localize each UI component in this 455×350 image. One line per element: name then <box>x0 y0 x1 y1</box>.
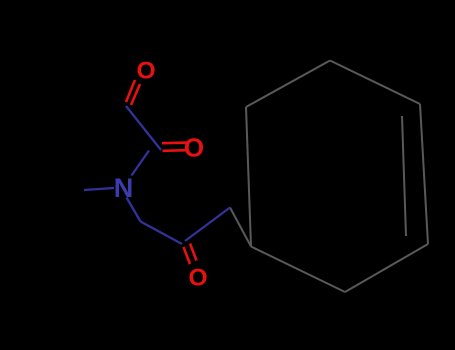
svg-text:O: O <box>184 133 204 163</box>
wire ring inner double-bond line (inside right edge) <box>402 116 406 236</box>
wire ring edge B-C (top-right edge) <box>330 61 420 105</box>
double bond C2=O2 (amide carbonyl, horizontal) <box>162 141 188 144</box>
wire bond C4-C5 <box>185 208 230 242</box>
wire bond C2-N <box>132 151 150 176</box>
wire bond N-C3 <box>127 198 141 222</box>
svg-text:N: N <box>114 173 134 203</box>
wire ring edge D-E (bottom-right edge) <box>345 244 428 292</box>
wire connector C5 to ring vertex F <box>230 208 251 247</box>
svg-text:O: O <box>188 265 207 292</box>
double bond C4=O3 (ketone, two dashes) <box>184 247 191 264</box>
bonds of left molecule (navy) <box>84 106 230 244</box>
ring R1 (large gray carbocycle, right side) <box>230 61 428 293</box>
wire ring edge A-B (top-left edge) <box>246 61 330 108</box>
wire bond C3-C4 <box>141 222 183 245</box>
double bond C1=O1 (aldehyde, two dashes) <box>126 80 135 102</box>
carbonyl double bonds (red) <box>126 80 197 264</box>
wire ring edge C-D (right edge) <box>420 104 428 244</box>
svg-text:O: O <box>136 58 155 85</box>
wire ring edge F-A (left edge) <box>246 107 251 247</box>
wire bond C1-C2 <box>126 106 161 150</box>
wire bond N-CH3 (left stub) <box>84 188 114 190</box>
wire ring edge E-F (bottom-left edge) <box>251 247 345 293</box>
